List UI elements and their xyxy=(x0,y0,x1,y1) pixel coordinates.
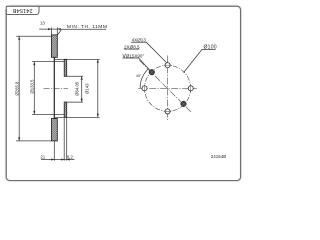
horizontal centerline xyxy=(138,87,197,89)
bolt hole W xyxy=(142,86,147,91)
bottom dim 21 / 6.2: extension lines xyxy=(54,117,66,160)
bottom dimension line xyxy=(41,159,75,161)
recess edge bottom + ext xyxy=(64,101,83,103)
svg-text:Ø133.5: Ø133.5 xyxy=(30,79,35,94)
hat inner wall top + ext to dia133.5 dim xyxy=(32,61,64,63)
hat outer wall top + ext to dia143 dim xyxy=(55,58,100,60)
svg-text:Ø143: Ø143 xyxy=(85,83,90,94)
svg-text:21: 21 xyxy=(40,155,45,160)
svg-text:Ø64.05: Ø64.05 xyxy=(74,81,79,96)
label countersink O15X90 with leader to NW hole xyxy=(123,54,126,58)
45deg dimension arc xyxy=(140,69,148,88)
bolt hole S xyxy=(165,109,170,114)
dim 133.5 arrows xyxy=(33,62,35,115)
svg-text:6.2: 6.2 xyxy=(67,155,74,160)
hat inner wall bottom + ext xyxy=(32,113,64,115)
dim 143 arrows xyxy=(97,59,99,117)
recess edge top + ext (dia 64.05) xyxy=(64,75,83,77)
min thickness leader xyxy=(58,29,107,35)
dim 13: dimension line xyxy=(39,28,60,30)
svg-text:2XØ8.5: 2XØ8.5 xyxy=(124,44,140,49)
dim 265.8: extension lines xyxy=(16,36,51,141)
part number box (top-left) xyxy=(6,6,39,14)
svg-text:Ø15X90°: Ø15X90° xyxy=(126,53,145,58)
svg-text:Ø265.8: Ø265.8 xyxy=(15,81,20,96)
friction ring lower half (hatched) xyxy=(52,119,58,141)
drawing frame xyxy=(6,6,240,180)
dim 13 arrows xyxy=(48,28,61,30)
axis centerline xyxy=(44,88,69,90)
svg-text:Ø100: Ø100 xyxy=(204,45,217,51)
svg-text:24154B: 24154B xyxy=(211,154,227,159)
bolt hole E xyxy=(188,86,193,91)
vertical centerline xyxy=(167,56,169,122)
dim 133.5: dimension line xyxy=(33,62,35,115)
dim 265.8 arrows xyxy=(18,36,20,141)
svg-text:13: 13 xyxy=(40,20,45,25)
svg-text:MIN. TH. 11MM: MIN. TH. 11MM xyxy=(67,24,108,30)
screw hole NW (countersunk) xyxy=(149,69,155,75)
diagonal centerline 45deg xyxy=(139,60,191,112)
bolt circle dia 100 xyxy=(145,65,191,111)
mounting flange lower (hatched) xyxy=(64,102,67,117)
svg-text:4XØ13: 4XØ13 xyxy=(132,38,147,43)
dim 265.8: dimension line xyxy=(18,36,20,141)
svg-text:45°: 45° xyxy=(136,74,142,78)
svg-text:24154B: 24154B xyxy=(12,7,32,13)
bottom dim arrows xyxy=(51,158,70,160)
dim 143: dimension line xyxy=(97,59,99,117)
web (thin, continuous) xyxy=(53,57,55,118)
dim 64.05: dimension line xyxy=(81,76,83,102)
screw hole SE (countersunk) xyxy=(181,101,187,107)
hat outer wall bottom + ext xyxy=(55,116,100,118)
mounting flange upper (hatched) xyxy=(64,59,67,76)
friction ring upper half (hatched) xyxy=(52,35,58,57)
bolt hole N xyxy=(165,63,170,68)
dim 13: extension lines xyxy=(52,28,58,35)
dim 64.05 arrows xyxy=(81,76,83,102)
